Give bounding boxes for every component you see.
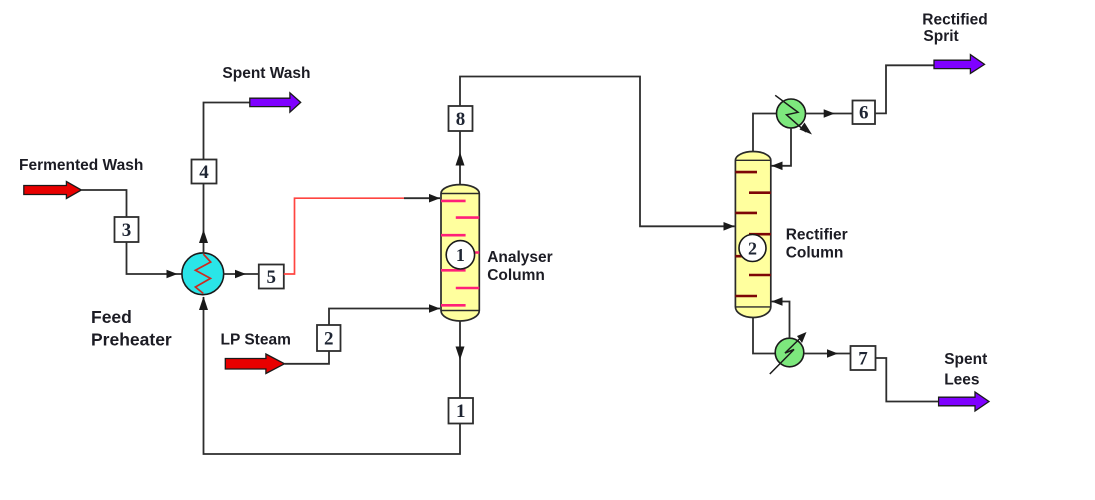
box 7 [851,346,876,370]
box 3 [115,217,139,242]
svg-text:1: 1 [456,401,466,422]
reboiler E-102 (green exchanger) [770,332,807,374]
rectifier column T-101 [735,152,770,318]
svg-text:Spent: Spent [944,351,987,368]
box 1 [449,398,474,424]
wire analyser overhead to box 8 and rectifier [460,77,735,227]
svg-text:LP Steam: LP Steam [221,332,291,349]
box 4 [192,160,217,184]
box 8 [449,106,473,131]
condenser E-101 (green exchanger) [775,95,812,134]
svg-text:Feed: Feed [91,307,132,327]
wire reboiler to box 7 [804,353,851,355]
wire box 2 to analyser column [329,309,440,326]
svg-text:Column: Column [487,267,545,284]
svg-text:2: 2 [748,238,757,258]
svg-text:8: 8 [456,109,466,130]
svg-text:Column: Column [786,245,844,262]
wire condenser to box 6 [806,113,853,115]
svg-text:2: 2 [324,328,334,349]
trays analyser (pink) [441,200,466,203]
feed preheater E-100 (cyan exchanger) [182,253,224,295]
wire LP steam to box 2 [285,351,330,364]
analyser column T-100 [441,185,479,321]
wire vapor return reboiler to rectifier [772,302,790,339]
wire black segment into analyser [404,197,440,199]
wire fermented wash to box 3 [81,190,126,217]
svg-text:7: 7 [858,348,868,369]
arrowhead up before preheater [199,230,208,244]
wire analyser bottoms to box 1 and preheater [204,297,461,454]
arrowhead into box 6 [824,109,835,118]
arrowhead up into preheater bottom [199,297,208,311]
svg-text:Analyser: Analyser [487,249,552,266]
arrowhead reflux into rectifier [772,162,783,171]
wire preheater to box 5 [224,273,259,275]
svg-text:4: 4 [199,162,209,183]
unit circle 2 on rectifier [739,235,766,262]
arrowhead into box 7 [827,349,838,358]
wire rectifier bottom to reboiler [753,318,776,354]
stream arrow Spent Wash (purple) [250,93,301,112]
svg-text:3: 3 [122,220,132,241]
wire box 7 to spent lees arrow [876,358,939,402]
wire preheater up to box 4 [204,103,250,254]
trays rectifier (maroon) [735,171,757,174]
arrowhead vapor into rectifier [772,297,783,306]
arrowhead feed into rectifier [724,222,735,231]
svg-text:Spent Wash: Spent Wash [222,65,310,82]
arrowhead into preheater [167,270,178,279]
svg-text:Rectifier: Rectifier [786,227,848,244]
box 6 [853,101,876,125]
wire box 6 to rectified sprit arrow [875,65,934,113]
svg-text:1: 1 [456,245,465,265]
svg-text:5: 5 [267,267,277,288]
wire rectifier top to condenser [753,114,777,153]
box 5 [259,265,284,289]
stream arrow LP Steam (red) [225,354,284,374]
arrowhead down bottoms [456,347,465,361]
svg-text:Rectified: Rectified [922,12,987,29]
stream arrow Fermented Wash (red) [24,182,82,199]
wire box 3 to preheater [127,242,183,274]
arrowhead steam into analyser [429,304,440,313]
svg-text:Sprit: Sprit [923,28,958,45]
arrowhead up overhead [456,152,465,166]
stream arrow Spent Lees (purple) [939,392,989,411]
arrowhead feed into analyser [429,194,440,203]
arrowhead into box 5 [235,270,246,279]
svg-text:Preheater: Preheater [91,330,172,350]
unit circle 1 on analyser [446,241,474,269]
svg-text:Lees: Lees [944,372,979,389]
stream arrow Rectified Sprit (purple) [934,55,985,74]
svg-text:6: 6 [859,102,869,123]
svg-text:Fermented Wash: Fermented Wash [19,157,143,174]
box 2 [317,325,341,351]
wire reflux condenser to rectifier [772,128,792,166]
red stream wire box 5 to analyser column [284,198,404,274]
